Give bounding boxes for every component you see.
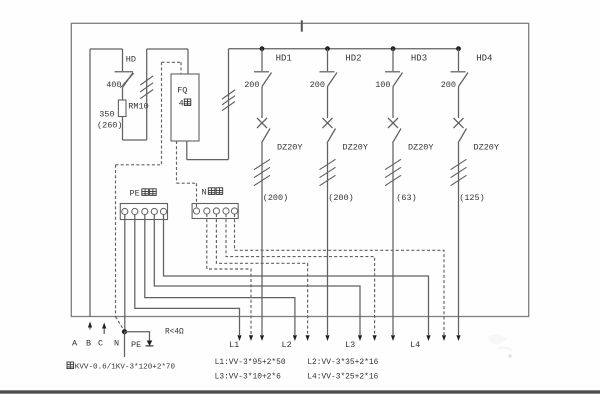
wire: N feed to L1 (dashed) <box>207 214 251 335</box>
incoming phase arrow B <box>88 322 92 330</box>
wire: breaker to outgoing arrow <box>458 143 460 335</box>
circuit breaker DZ20Y contact (X) <box>388 118 401 143</box>
outgoing arrow (phase) <box>260 335 264 341</box>
wire: neutral dashed drop to N bar <box>196 183 198 208</box>
svg-text:(260): (260) <box>97 121 123 131</box>
cabinet enclosure outline <box>71 23 528 316</box>
svg-text:200: 200 <box>310 80 325 90</box>
wire: dashed diagonal to PEN node <box>116 317 125 332</box>
wire: neutral dashed from FQ bottom <box>176 141 178 183</box>
wire: incoming phase riser (left vertical) <box>89 49 91 317</box>
3-phase hatch marks <box>385 159 401 169</box>
svg-text:100: 100 <box>375 80 390 90</box>
svg-text:400: 400 <box>106 80 121 90</box>
node: bus tap for HD4 <box>456 46 461 51</box>
earth ground symbol <box>146 341 154 347</box>
svg-text:350: 350 <box>99 110 114 120</box>
wire: neutral dashed link to N bar <box>177 182 197 184</box>
wire: PE feed to L1 <box>135 214 240 335</box>
svg-text:L2: L2 <box>282 340 292 350</box>
wire: output link right <box>187 159 229 161</box>
PE busbar 母排 <box>120 204 167 220</box>
wire: neutral dashed top link <box>162 61 182 63</box>
svg-text:PE: PE <box>131 340 141 350</box>
circuit breaker DZ20Y contact (X) <box>323 118 336 143</box>
svg-text:HD1: HD1 <box>276 54 292 64</box>
wire: PE feed to L4 <box>164 214 429 335</box>
wire: bus drop to HD1 <box>261 49 263 71</box>
svg-text:RM10: RM10 <box>128 102 148 112</box>
wire: PE feed to L2 <box>145 214 295 335</box>
svg-text:L3: L3 <box>345 340 355 350</box>
svg-text:PE: PE <box>130 189 140 199</box>
outgoing arrow (phase) <box>456 335 460 341</box>
wire: PE feed to L3 <box>154 214 360 335</box>
wire: switch to breaker HD1 <box>261 87 263 119</box>
svg-text:L1:VV-3*95+2*50: L1:VV-3*95+2*50 <box>215 358 286 367</box>
outgoing arrow (N L2) <box>306 335 310 341</box>
outgoing arrow (N L4) <box>442 335 446 341</box>
wire: neutral dashed riser <box>161 62 163 165</box>
outgoing arrow (phase) <box>325 335 329 341</box>
3-phase hatch marks <box>222 90 235 99</box>
svg-text:L4: L4 <box>410 340 420 350</box>
wire: incoming N below node <box>124 332 126 357</box>
svg-text:(200): (200) <box>328 193 354 203</box>
circuit breaker DZ20Y contact (X) <box>257 118 270 143</box>
outgoing arrow (PE L3) <box>358 335 362 341</box>
wire: bottom link <box>123 139 147 141</box>
wire: riser to FQ with 3-phase marks <box>146 49 148 140</box>
svg-text:KVV-0.6/1KV-3*120+2*70: KVV-0.6/1KV-3*120+2*70 <box>75 364 176 372</box>
svg-text:(63): (63) <box>396 193 416 203</box>
svg-text:HD: HD <box>126 55 136 65</box>
wire: switch to breaker HD2 <box>327 87 329 119</box>
svg-text:L4:VV-3*25+2*16: L4:VV-3*25+2*16 <box>307 373 378 382</box>
svg-text:R<4Ω: R<4Ω <box>165 329 184 337</box>
node: bus tap for HD1 <box>260 46 265 51</box>
svg-text:(200): (200) <box>263 193 289 203</box>
svg-text:N: N <box>202 188 207 198</box>
fuse RM10 <box>118 100 126 117</box>
knife switch HD2 200A <box>320 72 338 87</box>
label 4只 <box>179 99 191 109</box>
wire: drop into FQ box <box>187 49 189 74</box>
wire: N feed to L2 (dashed) <box>216 214 307 335</box>
svg-text:4: 4 <box>179 99 184 109</box>
wire: switch to breaker HD3 <box>392 87 394 119</box>
node: PEN split / earth junction <box>122 329 127 334</box>
circuit breaker DZ20Y contact (X) <box>454 118 467 143</box>
svg-text:200: 200 <box>441 80 456 90</box>
wire: FQ box output down <box>186 141 188 160</box>
outgoing arrow (PE L2) <box>293 335 297 341</box>
knife switch HD3 100A <box>385 72 403 87</box>
wire: bus drop to HD2 <box>327 49 329 71</box>
meter box FQ (4 units) <box>171 74 199 141</box>
main 3-phase bus <box>229 48 459 50</box>
label N母排 <box>202 188 223 198</box>
wire: earthing conductor <box>125 332 150 343</box>
svg-text:L1: L1 <box>229 340 239 350</box>
node: bus tap for HD2 <box>325 46 330 51</box>
3-phase hatch marks <box>140 76 153 85</box>
faint watermark smudge <box>487 334 512 357</box>
svg-text:DZ20Y: DZ20Y <box>408 143 434 153</box>
svg-text:C: C <box>98 339 103 349</box>
wire: PE bar to PEN earth node <box>124 214 126 331</box>
outgoing arrow (N L1) <box>249 335 253 341</box>
label incoming cable spec <box>67 362 175 372</box>
wire: neutral dashed riser (incoming N to FQ) <box>115 165 117 317</box>
svg-text:FQ: FQ <box>177 86 187 96</box>
wire: breaker to outgoing arrow <box>327 143 329 335</box>
wire: switch to fuse <box>122 88 124 101</box>
svg-text:HD3: HD3 <box>411 54 427 64</box>
wire: neutral dashed drop into FQ <box>180 62 182 74</box>
top center tick mark <box>301 20 303 31</box>
wire: neutral dashed link <box>116 164 162 166</box>
svg-text:N: N <box>114 339 119 349</box>
wire: drop to main switch HD <box>122 49 124 71</box>
wire: top link to main switch <box>90 48 123 50</box>
3-phase hatch marks <box>320 159 336 169</box>
main knife switch HD 400A <box>115 72 134 88</box>
outgoing arrow (PE L4) <box>426 335 430 341</box>
wire: fuse down <box>122 117 124 141</box>
svg-text:(125): (125) <box>459 193 485 203</box>
wire: N feed to L3 (dashed) <box>226 214 375 335</box>
label PE母排 <box>130 189 157 199</box>
svg-text:L2:VV-3*35+2*16: L2:VV-3*35+2*16 <box>307 358 378 367</box>
wire: breaker to outgoing arrow <box>392 143 394 335</box>
node: bus tap for HD3 <box>391 46 396 51</box>
svg-text:200: 200 <box>244 80 259 90</box>
outgoing arrow (PE L1) <box>237 335 241 341</box>
svg-text:HD2: HD2 <box>345 54 361 64</box>
3-phase hatch marks <box>254 159 270 169</box>
knife switch HD4 200A <box>451 72 469 87</box>
wire: bus drop to HD3 <box>392 49 394 71</box>
N busbar 母排 <box>192 204 238 219</box>
svg-text:DZ20Y: DZ20Y <box>474 143 500 153</box>
outgoing arrow (phase) <box>391 335 395 341</box>
svg-text:HD4: HD4 <box>476 54 492 64</box>
svg-text:A: A <box>72 339 78 349</box>
incoming phase arrow C <box>102 323 106 335</box>
wire: bus drop to HD4 <box>458 49 460 71</box>
outgoing arrow (N L3) <box>373 335 377 341</box>
wire: riser to main bus with 3-phase marks <box>228 49 230 160</box>
wire: N feed to L4 (dashed) <box>235 214 445 335</box>
wire: breaker to outgoing arrow <box>261 143 263 335</box>
bottom divider bar <box>0 390 600 393</box>
wire: switch to breaker HD4 <box>458 87 460 119</box>
knife switch HD1 200A <box>254 72 272 87</box>
svg-text:DZ20Y: DZ20Y <box>343 143 369 153</box>
wire: top link to FQ box <box>147 48 188 50</box>
3-phase hatch marks <box>451 159 467 169</box>
svg-text:B: B <box>86 339 91 349</box>
svg-text:L3:VV-3*10+2*6: L3:VV-3*10+2*6 <box>215 373 282 382</box>
svg-text:DZ20Y: DZ20Y <box>277 143 303 153</box>
